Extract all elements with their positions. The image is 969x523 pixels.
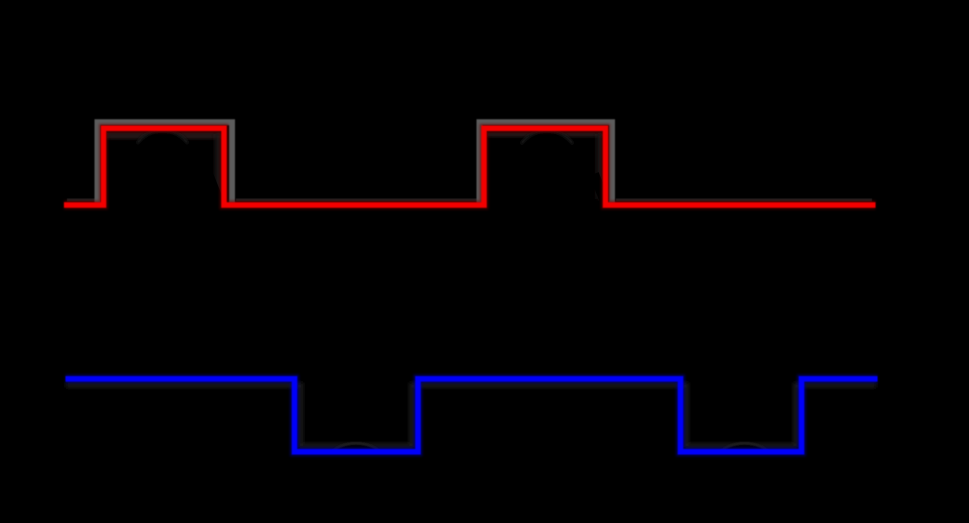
faint inner halo of blue wave (66, 385, 876, 446)
black dome in red pulse 1 (131, 130, 194, 193)
black diagonal silhouette before red fall 2 (594, 174, 606, 204)
red wave glow (64, 128, 876, 205)
black diagonal silhouette before red fall 1 (208, 174, 220, 204)
blue wave core (66, 379, 878, 452)
faint line above red baseline (67, 199, 872, 202)
black dome in blue dip 2 (719, 443, 771, 472)
faint haze below red pulse tops (106, 132, 221, 139)
gray halo around red pulse 2 (480, 122, 613, 203)
faint haze inside red falling edges (218, 134, 600, 199)
black dome in blue dip 1 (330, 443, 382, 472)
red wave core (64, 128, 876, 205)
black dome in red pulse 2 (515, 130, 579, 194)
blue wave glow (66, 379, 878, 452)
gray halo around red pulse 1 (98, 122, 233, 203)
